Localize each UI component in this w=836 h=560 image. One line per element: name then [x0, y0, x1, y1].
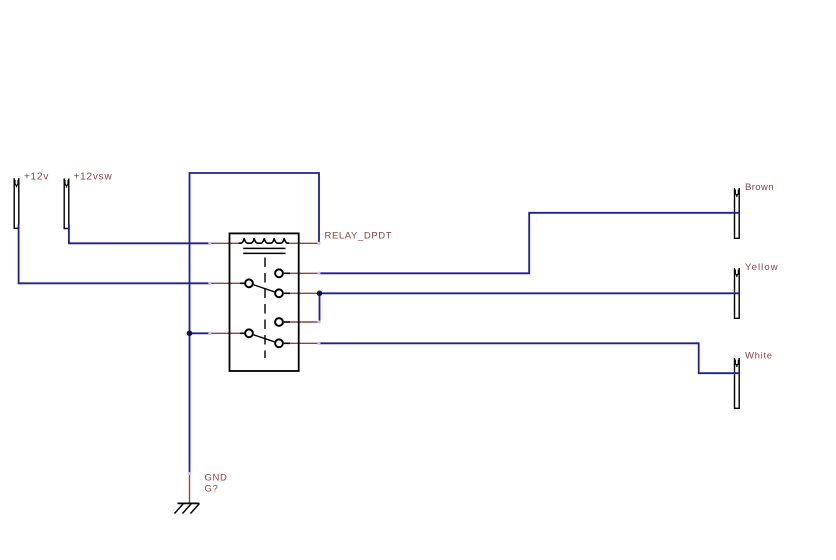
- pin end marker pole1: [208, 282, 211, 285]
- relay actuator dashed line: [264, 258, 266, 359]
- pin end marker coil right: [317, 242, 320, 245]
- junction dot yellow net: [317, 291, 323, 297]
- relay core line 2: [243, 252, 285, 254]
- wire coil right loop top: [190, 173, 320, 473]
- pin contact S3: [290, 321, 319, 323]
- pin end marker contact4: [317, 342, 320, 345]
- junction dot pole2 / gnd: [187, 331, 193, 337]
- relay contact 3 circle: [275, 318, 283, 326]
- ground symbol: [175, 503, 200, 513]
- relay coil: [239, 238, 290, 243]
- wire contact1 to Brown: [319, 213, 739, 273]
- wire junction branch to contact3: [318, 293, 321, 322]
- svg-text:White: White: [745, 351, 773, 362]
- pin contact S2: [290, 292, 318, 294]
- relay contact 1 circle: [275, 269, 283, 277]
- relay core line 1: [243, 247, 285, 249]
- pin contact S4: [290, 342, 319, 344]
- pin contact S1: [290, 272, 319, 274]
- relay contact 2 circle: [275, 289, 283, 297]
- connector J2 +12vsw: [64, 179, 69, 229]
- pin end marker contact3: [317, 321, 320, 324]
- relay contact 4 circle: [275, 339, 283, 347]
- wire +12v to pole1: [19, 224, 209, 283]
- svg-text:GND: GND: [205, 473, 228, 484]
- wire pole2 stub: [190, 332, 209, 334]
- pin coil right K1: [290, 242, 319, 244]
- relay switch arm pole 1: [254, 285, 275, 292]
- pin pole P1: [211, 282, 241, 284]
- svg-text:+12v: +12v: [24, 172, 49, 183]
- wire +12vsw to coil left: [69, 224, 209, 243]
- pin end marker pole2: [208, 332, 211, 335]
- wire contact4 to White: [319, 343, 739, 373]
- svg-text:G?: G?: [205, 484, 219, 495]
- relay switch arm pole 2: [254, 335, 275, 342]
- connector J5 White: [735, 358, 740, 408]
- wire contact2 to Yellow: [317, 292, 739, 294]
- svg-text:Yellow: Yellow: [745, 262, 779, 273]
- relay pole 2 terminal circle: [245, 329, 253, 337]
- pin end marker ground: [188, 472, 191, 475]
- svg-text:Brown: Brown: [745, 182, 774, 193]
- pin pole P2: [211, 332, 241, 334]
- pin end marker coil left: [208, 242, 211, 245]
- relay pole 1 terminal circle: [245, 279, 253, 287]
- connector J4 Yellow: [735, 268, 740, 318]
- connector J1 +12v: [14, 178, 19, 228]
- pin end marker contact1: [317, 272, 320, 275]
- pin ground GND: [189, 474, 191, 503]
- connector J3 Brown: [735, 188, 740, 238]
- pin coil left K1: [211, 242, 240, 244]
- svg-text:+12vsw: +12vsw: [74, 172, 113, 183]
- svg-text:RELAY_DPDT: RELAY_DPDT: [325, 231, 393, 242]
- relay RELAY_DPDT body: [230, 233, 299, 371]
